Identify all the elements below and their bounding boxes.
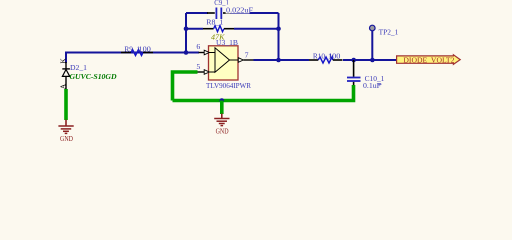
node: junction TP2 branch [370, 58, 375, 63]
node: junction feedback-right x R8 wire [276, 26, 281, 31]
ground: GND under D2_1 [58, 120, 73, 144]
wire: input net horizontal from diode to pin 6 [66, 52, 199, 54]
resistor R8_1 [203, 17, 234, 41]
svg-text:5: 5 [196, 62, 200, 71]
svg-text:K: K [59, 58, 68, 64]
ground: GND under op-amp bus [214, 114, 229, 136]
test point TP2_1 [370, 25, 399, 60]
wire: feedback right vertical [278, 13, 280, 60]
wire: diode top vertical [65, 52, 67, 64]
svg-text:0.1uF: 0.1uF [363, 81, 382, 90]
diode D2_1 [59, 58, 117, 90]
svg-text:GND: GND [60, 134, 73, 143]
svg-text:GND: GND [216, 126, 229, 135]
svg-text:D2_1: D2_1 [70, 63, 87, 72]
pin 5 (op-amp +IN) [196, 62, 209, 74]
svg-text:GUVC-S10GD: GUVC-S10GD [70, 72, 117, 81]
wire: op-amp +IN green wide wire to bus [173, 72, 198, 101]
node: junction C10 branch [351, 58, 356, 63]
svg-text:TP2_1: TP2_1 [379, 28, 399, 37]
wire: feedback mid horizontal (R8 branch) [186, 28, 279, 30]
wire: green bottom bus [173, 85, 354, 101]
resistor R10_1 [309, 51, 343, 63]
wire: green stub from bus to middle GND [220, 101, 224, 115]
node: junction feedback-left x input wire [184, 50, 189, 55]
svg-text:100: 100 [139, 45, 151, 54]
svg-text:TLV9064IPWR: TLV9064IPWR [206, 81, 251, 90]
svg-text:A: A [59, 83, 68, 89]
wire: diode anode to GND (green wide) [64, 89, 68, 120]
svg-text:6: 6 [196, 42, 200, 51]
wire: feedback left vertical [185, 13, 187, 53]
pin 7 (op-amp OUT) [238, 51, 253, 63]
svg-text:U3_1B: U3_1B [216, 38, 238, 47]
pin 6 (op-amp -IN) [196, 42, 209, 55]
resistor R9_1 [121, 45, 153, 56]
svg-text:DIODE_VOLT2: DIODE_VOLT2 [403, 55, 454, 64]
op-amp U3_1B body [206, 38, 251, 90]
node: junction feedback-left x R8 wire [184, 26, 189, 31]
capacitor C9_1 [207, 0, 254, 19]
svg-text:100: 100 [328, 51, 340, 60]
node: junction green bus x GND stub [220, 98, 225, 103]
node: junction feedback-right x output wire [276, 58, 281, 63]
wire: output net from pin 7 to flag [254, 59, 310, 61]
wire: feedback top horizontal (C9 branch) [186, 12, 279, 14]
svg-text:7: 7 [245, 51, 249, 60]
capacitor C10_1 [347, 60, 384, 90]
svg-text:0.022uF: 0.022uF [226, 5, 254, 14]
port flag DIODE_VOLT2 [397, 55, 461, 65]
svg-text:R8_1: R8_1 [206, 17, 223, 26]
